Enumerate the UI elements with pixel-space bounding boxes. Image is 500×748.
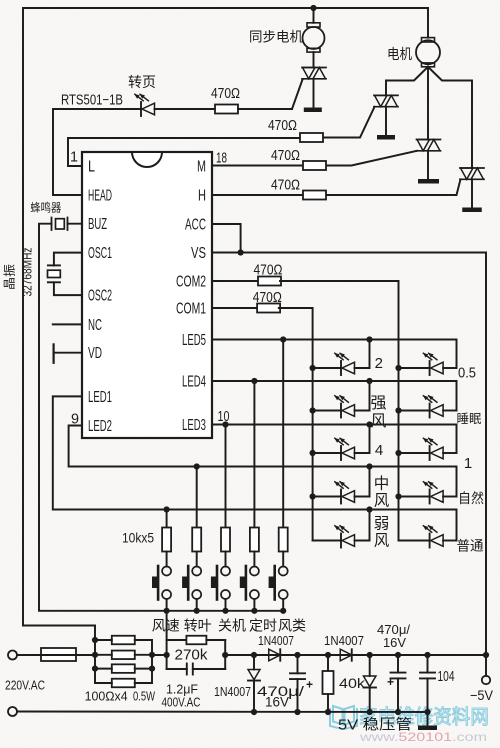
svg-text:蜂鸣器: 蜂鸣器 [30, 201, 61, 215]
svg-text:1: 1 [464, 455, 472, 472]
svg-text:BUZ: BUZ [88, 216, 107, 233]
svg-text:定时: 定时 [249, 618, 277, 634]
svg-text:RTS501−1B: RTS501−1B [61, 93, 123, 109]
svg-text:COM2: COM2 [176, 274, 206, 291]
svg-text:1N4007: 1N4007 [214, 684, 251, 699]
svg-text:1: 1 [70, 149, 78, 165]
svg-text:400V.AC: 400V.AC [162, 695, 201, 710]
svg-text:1N4007: 1N4007 [258, 633, 294, 648]
svg-text:10kx5: 10kx5 [122, 530, 154, 546]
svg-text:自然: 自然 [458, 490, 484, 506]
svg-text:LED1: LED1 [88, 389, 112, 406]
svg-text:470Ω: 470Ω [211, 86, 240, 102]
svg-text:风: 风 [370, 413, 386, 430]
svg-text:0.5W: 0.5W [133, 689, 156, 704]
svg-text:H: H [198, 188, 206, 205]
svg-text:+: + [387, 675, 394, 689]
svg-text:100Ωx4: 100Ωx4 [85, 689, 128, 704]
svg-text:OSC2: OSC2 [88, 288, 112, 305]
svg-text:强: 强 [370, 395, 386, 412]
svg-text:5V 稳压管: 5V 稳压管 [338, 717, 412, 734]
svg-text:中: 中 [374, 475, 390, 493]
svg-text:40k: 40k [339, 675, 366, 691]
svg-text:M: M [197, 159, 206, 176]
svg-text:18: 18 [216, 150, 227, 166]
svg-text:转页: 转页 [128, 74, 156, 90]
svg-text:32768MHz: 32768MHz [21, 248, 35, 297]
svg-text:470Ω: 470Ω [271, 148, 300, 164]
svg-text:ACC: ACC [185, 217, 206, 234]
svg-text:4: 4 [375, 442, 383, 459]
svg-text:VD: VD [88, 345, 102, 362]
svg-text:风: 风 [374, 493, 390, 510]
svg-text:2: 2 [375, 355, 383, 372]
svg-text:−5V: −5V [470, 687, 494, 703]
svg-text:470Ω: 470Ω [254, 263, 283, 279]
svg-text:转叶: 转叶 [184, 618, 212, 634]
svg-text:470Ω: 470Ω [268, 118, 297, 134]
svg-text:L: L [88, 159, 95, 176]
svg-text:LED3: LED3 [182, 417, 206, 434]
svg-text:16V: 16V [265, 695, 289, 710]
svg-text:COM1: COM1 [176, 301, 206, 318]
svg-text:VS: VS [191, 245, 206, 262]
svg-text:0.5: 0.5 [458, 366, 476, 382]
svg-text:+: + [306, 678, 313, 692]
svg-text:LED2: LED2 [88, 418, 112, 435]
svg-text:关机: 关机 [218, 618, 246, 634]
svg-text:104: 104 [438, 668, 455, 685]
svg-text:风类: 风类 [278, 618, 306, 634]
svg-text:电机: 电机 [387, 46, 412, 62]
svg-text:NC: NC [88, 317, 102, 334]
svg-text:220V.AC: 220V.AC [5, 678, 45, 693]
svg-text:风: 风 [374, 533, 390, 550]
svg-text:同步电机: 同步电机 [249, 30, 303, 45]
svg-text:睡眠: 睡眠 [457, 412, 482, 426]
svg-text:1N4007: 1N4007 [324, 633, 364, 648]
svg-text:HEAD: HEAD [88, 188, 112, 205]
svg-text:晶振: 晶振 [3, 264, 17, 290]
svg-text:弱: 弱 [374, 515, 390, 533]
svg-text:普通: 普通 [457, 539, 484, 554]
svg-text:270k: 270k [175, 648, 209, 664]
svg-text:LED5: LED5 [182, 332, 206, 349]
svg-text:OSC1: OSC1 [88, 245, 112, 262]
svg-text:LED4: LED4 [182, 374, 206, 391]
svg-text:470Ω: 470Ω [271, 178, 300, 194]
svg-text:470Ω: 470Ω [253, 290, 282, 306]
svg-text:16V: 16V [383, 635, 406, 650]
